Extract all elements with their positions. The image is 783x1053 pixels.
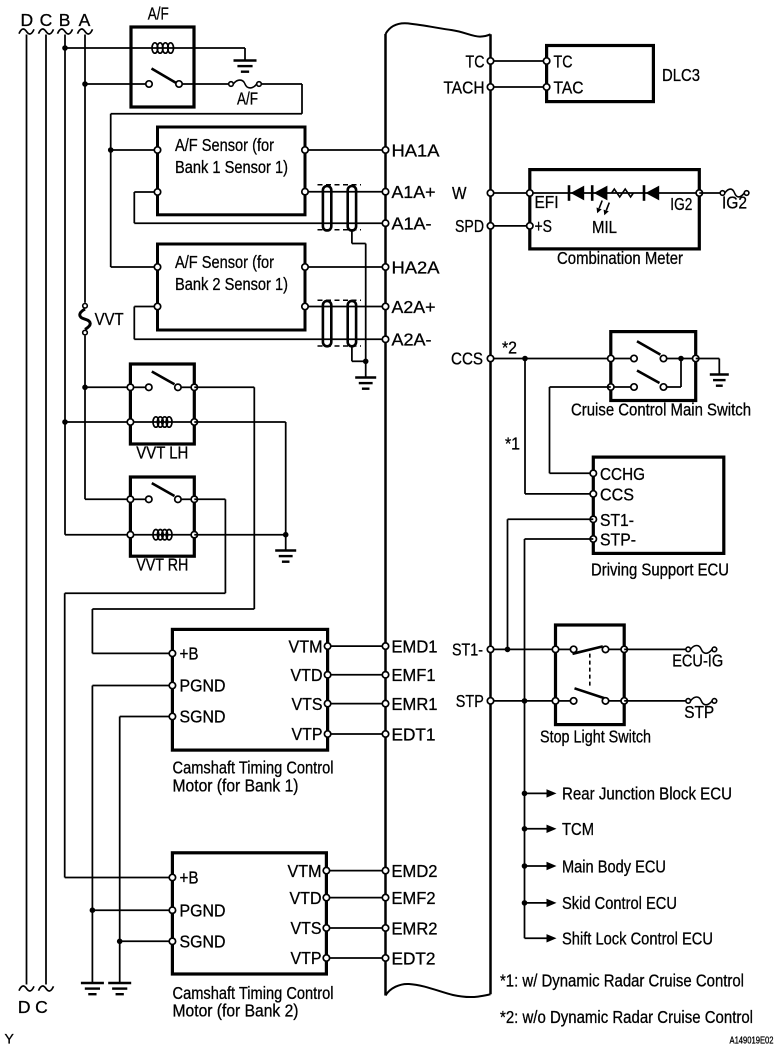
MIL arrow 2 [606, 203, 609, 211]
pin sensor2 top-right [302, 264, 308, 270]
node junction bank2 PGND [90, 907, 96, 913]
ECM right edge [489, 34, 492, 994]
stop switch row2 contact left [570, 698, 576, 704]
shield 2 twisted pair loop right [348, 301, 356, 346]
relay A/F switch wire left [131, 83, 146, 85]
wire cruise row2 to CCHG [550, 386, 611, 388]
svg-text:SGND: SGND [180, 932, 226, 952]
cruise row2 wire [667, 386, 681, 388]
wire STP branch bus [524, 701, 526, 938]
svg-text:A/F: A/F [237, 89, 258, 109]
pin cruise row2 left [608, 384, 614, 390]
svg-text:Combination Meter: Combination Meter [557, 248, 683, 268]
vvt rh switch wires [130, 498, 146, 500]
wire branch to TCM [525, 828, 547, 830]
arrow to Skid Control ECU [547, 899, 557, 907]
node junction Rear Junction Block ECU [522, 791, 528, 797]
pin cruise row1 right [693, 355, 699, 361]
pin bank1 SGND [169, 713, 175, 719]
pin meter +S [527, 223, 533, 229]
cruise row1 wires [611, 358, 631, 360]
wire feed to sensor1 [111, 149, 158, 151]
pin vvt rh switch right [191, 496, 197, 502]
pin sensor2 top-left [154, 264, 160, 270]
svg-text:EMR2: EMR2 [392, 918, 438, 938]
camshaft motor bank2 box [172, 853, 326, 974]
fuse ECU-IG circles [686, 647, 691, 652]
svg-text:D: D [20, 10, 33, 30]
terminal A2A- [382, 336, 388, 342]
fuse VVT circle bottom [83, 330, 88, 335]
wire rail A vertical upper [84, 35, 86, 303]
svg-text:W: W [452, 183, 467, 203]
wire vvt lh coil to ground [194, 421, 285, 423]
terminal SPD [487, 223, 493, 229]
node junction Main Body ECU [522, 863, 528, 869]
node junction bank2 SGND [117, 939, 123, 945]
fuse ECU-IG element [691, 646, 713, 654]
wire branch to Rear Junction Block ECU [525, 792, 547, 794]
wire STP to stop switch [491, 700, 556, 702]
wire rail A vertical lower [84, 336, 86, 500]
svg-text:SPD: SPD [455, 216, 484, 236]
svg-text:EDT2: EDT2 [392, 948, 436, 968]
svg-text:TACH: TACH [444, 77, 485, 97]
terminal A2A+ [382, 303, 388, 309]
pin stop row2 left [552, 698, 558, 704]
pin sensor1 bottom-right [302, 189, 308, 195]
pin stop row1 left [552, 646, 558, 652]
wire bank1 PGND [92, 685, 172, 687]
svg-text:TC: TC [554, 51, 573, 71]
ground for vvt coils [275, 549, 296, 551]
wire DSE ST1- down [508, 518, 594, 520]
wire sensor1 lower-left [134, 191, 154, 193]
svg-text:Stop Light Switch: Stop Light Switch [540, 727, 651, 747]
vvt lh relay box [130, 364, 194, 444]
wire bank2 SGND [120, 940, 173, 942]
terminal EDT2 [382, 955, 388, 961]
pin vvt lh switch right [191, 384, 197, 390]
wire relay switch to fuse [194, 83, 229, 85]
svg-text:Bank 1 Sensor 1): Bank 1 Sensor 1) [175, 157, 288, 177]
svg-text:Cruise Control Main Switch: Cruise Control Main Switch [571, 400, 751, 420]
pin sensor1 top-left [154, 147, 160, 153]
relay A/F switch wire right [182, 83, 194, 85]
pin bank2 PGND [169, 907, 175, 913]
arrow to TCM [547, 825, 557, 833]
MIL arrow 1 [599, 201, 602, 209]
wire branch to Main Body ECU [525, 865, 547, 867]
relay A/F switch blade [152, 69, 176, 83]
svg-text:CCHG: CCHG [600, 464, 645, 484]
shield 1 dashed screen [318, 184, 362, 186]
wire VTD to EMF2 [326, 897, 385, 899]
svg-text:STP: STP [456, 691, 484, 711]
wire W to meter [491, 192, 530, 194]
pin sensor1 top-right [302, 147, 308, 153]
terminal EMR1 [382, 700, 388, 706]
svg-text:+B: +B [180, 868, 199, 888]
svg-text:A149019E02: A149019E02 [730, 1035, 774, 1047]
combination meter box [530, 170, 700, 249]
svg-text:Motor (for Bank 1): Motor (for Bank 1) [173, 776, 299, 796]
fuse A/F circles [229, 82, 234, 87]
wire rail D vertical [26, 35, 28, 985]
svg-text:CCS: CCS [600, 485, 634, 505]
terminal ST1- [487, 646, 493, 652]
wire shield2 drain [351, 346, 353, 361]
svg-text:VTD: VTD [290, 888, 322, 908]
wire VTM to EMD2 [326, 870, 385, 872]
svg-text:IG2: IG2 [670, 194, 692, 214]
pin bank1 VTP [324, 731, 330, 737]
driving support ecu box [593, 457, 724, 553]
wire branch to Skid Control ECU [525, 902, 547, 904]
node junction Skid Control ECU [522, 900, 528, 906]
node junction B-coil [62, 45, 68, 51]
terminal STP [487, 698, 493, 704]
pin DSE STP- [590, 536, 596, 542]
svg-text:VTM: VTM [288, 861, 322, 881]
camshaft motor bank1 box [172, 629, 327, 750]
wire TC to DLC3 [491, 60, 547, 62]
wire rail B vertical upper [64, 35, 66, 535]
svg-text:STP: STP [684, 702, 714, 722]
pin vvt lh coil right [191, 419, 197, 425]
pin bank1 +B [169, 650, 175, 656]
svg-text:C: C [35, 997, 48, 1017]
relay A/F switch contact right [176, 81, 182, 87]
pin bank2 VTP [323, 955, 329, 961]
pin bank2 VTM [323, 867, 329, 873]
pin bank1 VTM [324, 643, 330, 649]
fuse VVT element [80, 309, 91, 329]
ground for SGND [108, 982, 131, 984]
shield 2 twisted pair loop left [323, 301, 331, 346]
wire rail A break symbol top [78, 29, 93, 34]
svg-text:A1A+: A1A+ [392, 182, 436, 202]
wire A to VVT RH switch [85, 498, 130, 500]
diode D2 MIL lamp [591, 185, 594, 201]
terminal TACH [487, 84, 493, 90]
svg-text:+B: +B [180, 644, 199, 664]
wire B to VVT LH coil [65, 421, 130, 423]
svg-text:EFI: EFI [535, 192, 559, 212]
svg-text:EMF1: EMF1 [392, 665, 436, 685]
wire A1A+ [305, 191, 386, 193]
pin DSE ST1- [590, 516, 596, 522]
node junction vvt coils ground [283, 532, 289, 538]
svg-text:VVT LH: VVT LH [136, 443, 188, 463]
svg-text:EMR1: EMR1 [392, 694, 438, 714]
a/f sensor bank2 box [158, 244, 306, 330]
wire stop row2 to STP fuse [624, 700, 686, 702]
ECM left edge [384, 34, 387, 996]
vvt rh coil [153, 530, 159, 540]
wire vvt rh coil to ground [194, 534, 285, 536]
pin bank2 +B [169, 874, 175, 880]
wire vvt ground stem [285, 535, 287, 550]
svg-text:+S: +S [535, 216, 553, 236]
svg-text:VTD: VTD [291, 665, 323, 685]
svg-text:VTP: VTP [292, 724, 323, 744]
wire cruise to ground [696, 358, 720, 360]
vvt rh switch blade [152, 483, 175, 496]
svg-text:D: D [18, 997, 31, 1017]
cruise switch row2 contact right [660, 384, 666, 390]
terminal A1A- [382, 220, 388, 226]
svg-text:VTS: VTS [291, 918, 322, 938]
wire VTS to EMR1 [328, 703, 386, 705]
svg-text:EMF2: EMF2 [392, 888, 436, 908]
shield 1 twisted pair loop right [348, 186, 356, 231]
svg-text:VTP: VTP [291, 948, 322, 968]
pin bank2 VTD [323, 894, 329, 900]
svg-text:ST1-: ST1- [600, 510, 634, 530]
wire A2A+ [305, 306, 386, 308]
arrow to Shift Lock Control ECU [547, 934, 557, 942]
terminal TC [487, 58, 493, 64]
diode D3 [643, 185, 646, 201]
stop light switch box [556, 625, 625, 725]
wire CCS pin to junction [525, 493, 593, 495]
wire CCS to cruise switch [491, 358, 611, 360]
diode D1 [568, 185, 571, 201]
fuse STP circles [686, 699, 691, 704]
ground for sensor shields [355, 376, 376, 378]
relay A/F switch contact left [146, 81, 152, 87]
wire VTD to EMF1 [328, 674, 386, 676]
pin bank1 VTD [324, 672, 330, 678]
dlc3 box [547, 46, 654, 102]
node junction ST1- [505, 647, 511, 653]
svg-text:Camshaft Timing Control: Camshaft Timing Control [173, 758, 334, 778]
wire B to A/F relay coil [65, 47, 131, 49]
terminal EMD1 [382, 643, 388, 649]
vvt lh switch contact inner right [175, 384, 181, 390]
pin vvt rh coil left [127, 532, 133, 538]
ECM torn bottom edge [386, 984, 491, 997]
cruise switch blade 2 [637, 371, 660, 384]
cruise switch row1 contact left [631, 355, 637, 361]
terminal EMD2 [382, 867, 388, 873]
pin bank1 VTS [324, 700, 330, 706]
pin sensor1 bottom-left [154, 189, 160, 195]
stop switch blade 2 [575, 688, 606, 698]
svg-text:TAC: TAC [554, 77, 584, 97]
ground for PGND [81, 982, 104, 984]
svg-text:A/F Sensor (for: A/F Sensor (for [175, 135, 274, 155]
shield 1 twisted pair loop left [323, 186, 331, 231]
stop switch row1 contact right [602, 646, 608, 652]
pin bank1 PGND [169, 682, 175, 688]
terminal EDT1 [382, 731, 388, 737]
node junction CCS [522, 356, 528, 362]
node junction TCM [522, 826, 528, 832]
cruise control main switch box [611, 332, 696, 401]
svg-text:A2A+: A2A+ [392, 297, 436, 317]
svg-text:VVT: VVT [95, 309, 124, 329]
wire DSE STP- down [525, 538, 594, 540]
a/f sensor bank1 box [158, 127, 306, 215]
svg-text:HA1A: HA1A [392, 140, 440, 160]
pin sensor2 bottom-right [302, 303, 308, 309]
wire B to VVT RH coil [65, 534, 130, 536]
node junction A VVT LH [82, 385, 88, 391]
pin DSE CCS [590, 491, 596, 497]
terminal HA1A [382, 147, 388, 153]
wire rail C break symbol top [39, 29, 54, 34]
pin vvt rh coil right [191, 532, 197, 538]
node junction STP [522, 698, 528, 704]
svg-text:A2A-: A2A- [392, 330, 432, 350]
svg-text:A/F: A/F [148, 4, 169, 24]
stop switch blade 1 [573, 646, 603, 653]
svg-text:A: A [79, 10, 91, 30]
stop row2 wires [556, 700, 572, 702]
wire feed to sensor2 [111, 266, 158, 268]
fuse IG2 circles [720, 191, 725, 196]
vvt lh coil wire [130, 421, 194, 423]
terminal EMR2 [382, 925, 388, 931]
svg-text:TC: TC [466, 51, 485, 71]
stop switch row2 contact right [602, 698, 608, 704]
wire HA2A [305, 266, 386, 268]
vvt rh switch contact inner left [146, 496, 152, 502]
arrow to Main Body ECU [547, 862, 557, 870]
svg-text:EMD2: EMD2 [392, 861, 438, 881]
svg-text:TCM: TCM [562, 819, 594, 839]
vvt rh relay box [130, 477, 194, 556]
svg-text:DLC3: DLC3 [662, 65, 700, 85]
wire meter to IG2 fuse [699, 192, 720, 194]
node junction shield drains [363, 359, 369, 365]
svg-text:A1A-: A1A- [392, 214, 432, 234]
fuse IG2 element [725, 189, 745, 197]
svg-text:*2: w/o Dynamic Radar Cruise C: *2: w/o Dynamic Radar Cruise Control [500, 1007, 753, 1027]
shield 2 dashed screen [318, 299, 362, 301]
stop switch mechanical link [589, 654, 591, 689]
wire bank1 SGND [120, 716, 173, 718]
wire stop row1 to ECU-IG fuse [624, 648, 686, 650]
svg-text:Motor (for Bank 2): Motor (for Bank 2) [173, 1001, 299, 1021]
node junction B VVT LH coil [62, 419, 68, 425]
wire rail D break symbol top [19, 29, 34, 34]
svg-text:ECU-IG: ECU-IG [672, 650, 723, 670]
cruise row2 wire left [611, 386, 631, 388]
pin cruise row1 left [608, 355, 614, 361]
svg-text:VVT RH: VVT RH [136, 555, 188, 575]
wire vvt lh switch to bank1 +B [194, 386, 254, 388]
wire fuse A/F wrap-around [261, 83, 302, 85]
wire relay coil to ground [194, 47, 245, 49]
wire ST1- to stop switch [491, 648, 556, 650]
terminal EMF1 [382, 672, 388, 678]
meter internal wire [530, 192, 700, 194]
svg-text:*1: w/ Dynamic Radar Cruise Co: *1: w/ Dynamic Radar Cruise Control [500, 971, 744, 991]
wire TACH to DLC3 [491, 86, 547, 88]
svg-text:EMD1: EMD1 [392, 636, 438, 656]
svg-text:*2: *2 [502, 338, 517, 358]
pin DLC3 TC [543, 58, 549, 64]
svg-text:PGND: PGND [180, 676, 226, 696]
svg-text:SGND: SGND [180, 707, 226, 727]
fuse VVT circle top [83, 304, 88, 309]
svg-text:Rear Junction Block ECU: Rear Junction Block ECU [562, 784, 732, 804]
pin meter EFI [527, 190, 533, 196]
wire A to VVT LH switch [85, 386, 130, 388]
svg-text:VTM: VTM [289, 636, 323, 656]
svg-text:CCS: CCS [451, 349, 483, 369]
pin bank2 SGND [169, 938, 175, 944]
pin stop row1 right [621, 646, 627, 652]
svg-text:PGND: PGND [180, 900, 226, 920]
svg-text:Y: Y [5, 1031, 15, 1047]
pin DLC3 TAC [543, 84, 549, 90]
ECM torn top edge [386, 23, 491, 36]
terminal EMF2 [382, 894, 388, 900]
wire A to A/F relay switch [85, 83, 131, 85]
stop row1 wires [556, 648, 572, 650]
svg-text:Driving Support ECU: Driving Support ECU [591, 560, 729, 580]
vvt lh switch blade [152, 372, 175, 385]
svg-text:Main Body ECU: Main Body ECU [562, 856, 666, 876]
vvt lh switch contact inner left [146, 384, 152, 390]
wire bank2 PGND [92, 909, 172, 911]
relay A/F box [131, 27, 194, 107]
pin vvt lh switch left [127, 384, 133, 390]
pin vvt rh switch left [127, 496, 133, 502]
svg-text:Bank 2 Sensor 1): Bank 2 Sensor 1) [175, 274, 288, 294]
wire SPD to meter [491, 225, 530, 227]
pin vvt lh coil left [127, 419, 133, 425]
wire rail D break symbol bottom [19, 986, 34, 991]
svg-text:ST1-: ST1- [452, 640, 483, 660]
terminal A1A+ [382, 189, 388, 195]
wire rail B break symbol top [58, 29, 73, 34]
node junction sensor1 feed [108, 147, 114, 153]
relay A/F coil wire [131, 47, 194, 49]
wire VTS to EMR2 [326, 927, 385, 929]
terminal W [487, 190, 493, 196]
stop switch row1 contact left [570, 646, 576, 652]
svg-text:C: C [40, 10, 53, 30]
pin sensor2 bottom-left [154, 303, 160, 309]
svg-text:HA2A: HA2A [392, 257, 440, 277]
wire drain to ground [365, 361, 367, 377]
arrow to Rear Junction Block ECU [547, 789, 557, 797]
vvt lh switch wires [130, 386, 146, 388]
svg-text:*1: *1 [505, 434, 520, 454]
wire vvt rh switch to bank2 +B [194, 498, 225, 500]
svg-text:VTS: VTS [292, 694, 323, 714]
terminal HA2A [382, 264, 388, 270]
svg-text:Shift Lock Control ECU: Shift Lock Control ECU [562, 929, 713, 949]
wire VTP to EDT2 [326, 957, 385, 959]
svg-text:IG2: IG2 [722, 193, 747, 213]
fuse A/F element [233, 80, 256, 88]
wire VTM to EMD1 [328, 645, 386, 647]
cruise switch row2 contact left [631, 384, 637, 390]
vvt rh coil wire [130, 534, 194, 536]
svg-text:MIL: MIL [592, 217, 617, 237]
svg-text:STP-: STP- [600, 529, 636, 549]
wire branch to Shift Lock Control ECU [525, 937, 547, 939]
wire VTP to EDT1 [328, 733, 386, 735]
vvt rh switch contact inner right [175, 496, 181, 502]
wire rail C break symbol bottom [39, 986, 54, 991]
